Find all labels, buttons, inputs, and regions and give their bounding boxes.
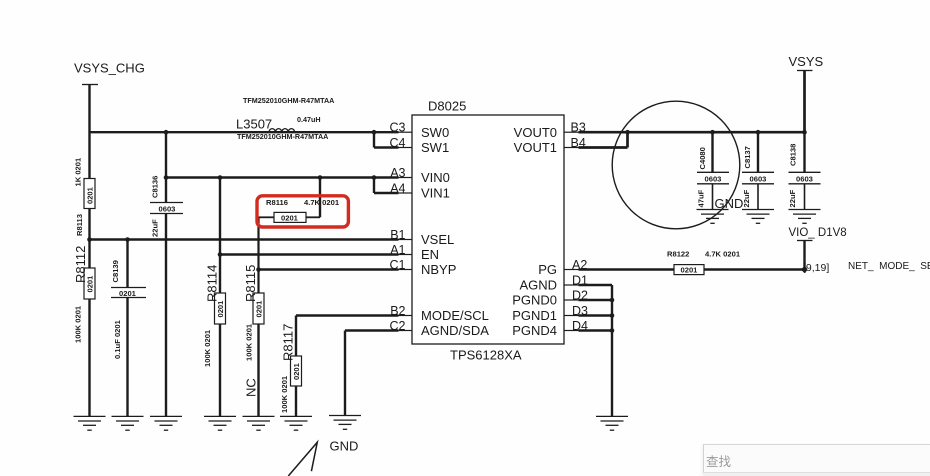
capacitor C8139 bbox=[111, 260, 146, 359]
capacitor C8137 bbox=[742, 132, 774, 209]
svg-text:22uF: 22uF bbox=[742, 189, 751, 207]
svg-text:TFM252010GHM-R47MTAA: TFM252010GHM-R47MTAA bbox=[237, 132, 328, 141]
junction at rail and C8136 branch bbox=[164, 130, 169, 135]
find panel bbox=[703, 444, 930, 476]
pin stub A4/VIN1 bbox=[399, 192, 413, 194]
ground under R8112 bbox=[74, 416, 106, 430]
svg-text:C3: C3 bbox=[390, 121, 406, 135]
wire C8136 branch from rail bbox=[165, 132, 167, 202]
ground under C8136 bbox=[150, 416, 182, 430]
svg-text:C8136: C8136 bbox=[151, 176, 160, 198]
svg-text:0.47uH: 0.47uH bbox=[297, 115, 321, 124]
svg-text:100K 0201: 100K 0201 bbox=[245, 323, 254, 361]
right pin stubs bbox=[564, 132, 579, 330]
node VSYS bbox=[789, 54, 824, 71]
svg-text:B1: B1 bbox=[390, 228, 405, 242]
svg-text:C4: C4 bbox=[390, 136, 406, 150]
IC left pin numbers bbox=[390, 121, 406, 333]
wire VSYS vertical bbox=[803, 71, 806, 133]
svg-text:VOUT0: VOUT0 bbox=[514, 125, 557, 140]
node VIO_ D1V8 bbox=[789, 227, 847, 241]
svg-text:VSYS: VSYS bbox=[789, 54, 824, 69]
svg-text:C8138: C8138 bbox=[789, 144, 798, 166]
svg-text:C2: C2 bbox=[390, 319, 406, 333]
inductor L3507 bbox=[236, 96, 334, 141]
junction PGND vertical D3 bbox=[610, 313, 615, 318]
pin stub C2/SDA bbox=[399, 330, 413, 332]
svg-text:VIO_ D1V8: VIO_ D1V8 bbox=[789, 227, 847, 239]
svg-text:0201: 0201 bbox=[86, 186, 95, 204]
svg-text:PGND0: PGND0 bbox=[512, 293, 557, 308]
ground under C8138 bbox=[789, 210, 821, 224]
resistor R8115 bbox=[243, 265, 264, 361]
capacitor C8138 bbox=[788, 132, 821, 209]
resistor R8114 bbox=[203, 265, 226, 367]
junction VSEL rail at x89.5 bbox=[87, 237, 92, 242]
IC left pin names bbox=[421, 125, 489, 338]
svg-text:[9,19]: [9,19] bbox=[803, 262, 829, 274]
wire VIO_D1V8 vertical bbox=[803, 241, 805, 270]
wire MODE/SCL rail bbox=[296, 316, 399, 357]
svg-text:0603: 0603 bbox=[750, 175, 767, 184]
wire VSYS_CHG main rail bbox=[90, 131, 399, 133]
svg-text:R8112: R8112 bbox=[73, 246, 88, 283]
capacitor C8136 bbox=[150, 176, 183, 237]
circle annotation bbox=[612, 101, 740, 229]
svg-text:D8025: D8025 bbox=[428, 99, 466, 114]
svg-text:AGND: AGND bbox=[519, 278, 557, 293]
svg-text:VOUT1: VOUT1 bbox=[514, 140, 557, 155]
pin stub B1/VSEL bbox=[399, 239, 413, 241]
junction at rail and SW1 branch bbox=[372, 130, 377, 135]
junction B3 rail at cap C8137 bbox=[756, 130, 761, 135]
svg-text:NET_ MODE_ SEL: NET_ MODE_ SEL bbox=[848, 261, 930, 272]
wire C8136 to ground bbox=[165, 214, 167, 417]
arrow annotation pointing to GND bbox=[288, 442, 317, 476]
pin stub C3/SW0 bbox=[399, 131, 413, 133]
op-amp U1 : IC D8025 TPS6128XA body bbox=[412, 99, 564, 363]
junction VIN rail at x220 bbox=[218, 175, 223, 180]
svg-text:0603: 0603 bbox=[796, 175, 813, 184]
junction VIN rail at x320 bbox=[318, 175, 323, 180]
wire R8116 right leg up to VIN rail bbox=[319, 178, 321, 218]
wire PGND vertical to ground bbox=[611, 285, 613, 416]
svg-text:C8139: C8139 bbox=[111, 260, 120, 282]
wire R8115 to ground bbox=[257, 324, 259, 416]
ground under PGND bbox=[596, 416, 628, 430]
wire EN rail bbox=[220, 253, 399, 255]
junction B3 rail at x627.5 bbox=[625, 130, 630, 135]
svg-text:A3: A3 bbox=[390, 166, 405, 180]
junction B3 rail at cap C4080 bbox=[710, 130, 715, 135]
junction PGND vertical D2 bbox=[610, 298, 615, 303]
svg-text:0201: 0201 bbox=[281, 214, 299, 223]
wire R8112 to ground bbox=[88, 299, 90, 416]
svg-text:AGND/SDA: AGND/SDA bbox=[421, 323, 489, 338]
wire VIN rail down to R8114 bbox=[219, 178, 221, 294]
svg-text:22uF: 22uF bbox=[151, 219, 160, 237]
svg-text:C4080: C4080 bbox=[698, 147, 707, 169]
wire R8122 to net stub bbox=[704, 268, 805, 270]
wire AGND/SDA rail bbox=[345, 331, 399, 416]
pin stub B2/MODE bbox=[399, 315, 413, 317]
IC right pin numbers bbox=[571, 121, 589, 333]
svg-text:VIN1: VIN1 bbox=[421, 186, 450, 201]
junction NBYP rail at x258.5 bbox=[256, 267, 261, 272]
svg-text:B2: B2 bbox=[390, 304, 405, 318]
svg-text:SW1: SW1 bbox=[421, 140, 449, 155]
pin stub C4/SW1 bbox=[399, 147, 413, 149]
svg-text:100K 0201: 100K 0201 bbox=[203, 329, 212, 367]
wire C8139 branch bbox=[126, 240, 128, 288]
svg-text:100K 0201: 100K 0201 bbox=[280, 375, 289, 413]
wire SW1 branch bbox=[374, 132, 399, 147]
IC right pin names bbox=[512, 125, 557, 338]
svg-text:4.7K 0201: 4.7K 0201 bbox=[705, 250, 741, 259]
svg-text:GND: GND bbox=[330, 439, 359, 454]
ground under C4080 bbox=[697, 210, 729, 224]
wire AGND D1 bbox=[579, 284, 613, 286]
svg-text:R8122: R8122 bbox=[667, 250, 689, 259]
resistor R8122 bbox=[667, 250, 741, 275]
node VSYS_CHG bbox=[74, 61, 145, 85]
svg-text:0603: 0603 bbox=[705, 175, 722, 184]
svg-text:0201: 0201 bbox=[292, 362, 301, 380]
svg-text:NBYP: NBYP bbox=[421, 262, 456, 277]
svg-text:A4: A4 bbox=[390, 182, 405, 196]
junction B3 rail at VSYS bbox=[802, 130, 807, 135]
svg-text:TFM252010GHM-R47MTAA: TFM252010GHM-R47MTAA bbox=[243, 96, 334, 105]
svg-text:22uF: 22uF bbox=[788, 189, 797, 207]
svg-text:4.7K 0201: 4.7K 0201 bbox=[304, 198, 340, 207]
pin stub A1/EN bbox=[399, 254, 413, 256]
svg-text:R8115: R8115 bbox=[243, 265, 258, 302]
svg-text:0201: 0201 bbox=[681, 266, 699, 275]
junction EN rail at x220 bbox=[218, 252, 223, 257]
junction VIN rail at x166 bbox=[164, 175, 169, 180]
junction at net end bbox=[802, 267, 807, 272]
ground under C8137 bbox=[742, 210, 774, 224]
svg-text:VIN0: VIN0 bbox=[421, 170, 450, 185]
junction VSEL rail and C8139 bbox=[125, 237, 130, 242]
pin stub A3/VIN0 bbox=[399, 177, 413, 179]
svg-text:TPS6128XA: TPS6128XA bbox=[450, 348, 522, 363]
svg-text:PGND4: PGND4 bbox=[512, 323, 557, 338]
wire VSEL rail bbox=[90, 238, 399, 240]
ground under R8115 bbox=[243, 416, 275, 430]
svg-text:47uF: 47uF bbox=[697, 189, 706, 207]
wire PG to R8122 bbox=[579, 268, 675, 270]
wire VSYS_CHG vertical drop bbox=[88, 85, 90, 179]
resistor R8117 bbox=[280, 324, 302, 413]
svg-text:L3507: L3507 bbox=[236, 117, 272, 132]
resistor R8113 bbox=[74, 157, 96, 236]
wire VIN rail bbox=[166, 176, 399, 178]
wire VOUT1/B4 jog bbox=[579, 131, 628, 148]
svg-text:GND: GND bbox=[715, 196, 744, 211]
svg-text:R8117: R8117 bbox=[281, 324, 296, 361]
svg-text:SW0: SW0 bbox=[421, 125, 449, 140]
ground under C8139 bbox=[112, 416, 144, 430]
svg-text:0603: 0603 bbox=[159, 205, 176, 214]
wire R8116 left leg down to NBYP bbox=[257, 217, 259, 293]
svg-text:NC: NC bbox=[244, 378, 259, 397]
wire C8139 to ground bbox=[126, 298, 128, 417]
ground under R8117 bbox=[280, 416, 312, 430]
wire VOUT0/B3 rail bbox=[579, 131, 805, 134]
svg-text:0.1uF 0201: 0.1uF 0201 bbox=[113, 319, 122, 359]
wire R8113 to VSEL rail bbox=[88, 209, 90, 269]
resistor R8112 bbox=[73, 246, 95, 343]
svg-text:1K 0201: 1K 0201 bbox=[74, 157, 83, 186]
svg-text:R8116: R8116 bbox=[266, 198, 288, 207]
svg-text:VSEL: VSEL bbox=[421, 232, 454, 247]
red highlight box around R8116 bbox=[257, 196, 348, 227]
wire PGND1 D3 bbox=[579, 314, 613, 316]
svg-text:VSYS_CHG: VSYS_CHG bbox=[74, 61, 145, 76]
ground under AGND/SDA wire bbox=[329, 416, 361, 430]
svg-text:C8137: C8137 bbox=[743, 146, 752, 168]
svg-text:0201: 0201 bbox=[119, 289, 137, 298]
svg-text:R8113: R8113 bbox=[75, 214, 84, 236]
svg-text:PG: PG bbox=[538, 262, 557, 277]
wire NBYP rail bbox=[259, 268, 399, 270]
wire PGND4 D4 bbox=[579, 329, 613, 331]
capacitor C4080 bbox=[697, 132, 730, 209]
wire R8117 to ground bbox=[295, 386, 297, 416]
junction PGND vertical D4 bbox=[610, 328, 615, 333]
svg-text:A1: A1 bbox=[390, 243, 405, 257]
wire PGND0 D2 bbox=[579, 299, 613, 301]
svg-text:PGND1: PGND1 bbox=[512, 308, 557, 323]
svg-text:C1: C1 bbox=[390, 258, 406, 272]
wire R8114 to ground bbox=[219, 324, 221, 416]
svg-text:R8114: R8114 bbox=[205, 265, 220, 302]
svg-text:MODE/SCL: MODE/SCL bbox=[421, 308, 489, 323]
resistor R8116 bbox=[259, 198, 340, 223]
junction VIN rail at x374 bbox=[372, 175, 377, 180]
svg-text:EN: EN bbox=[421, 247, 439, 262]
wire VIN1 branch bbox=[374, 178, 399, 194]
ground under R8114 bbox=[204, 416, 236, 430]
pin stub C1/NBYP bbox=[399, 269, 413, 271]
svg-text:100K 0201: 100K 0201 bbox=[74, 305, 83, 343]
